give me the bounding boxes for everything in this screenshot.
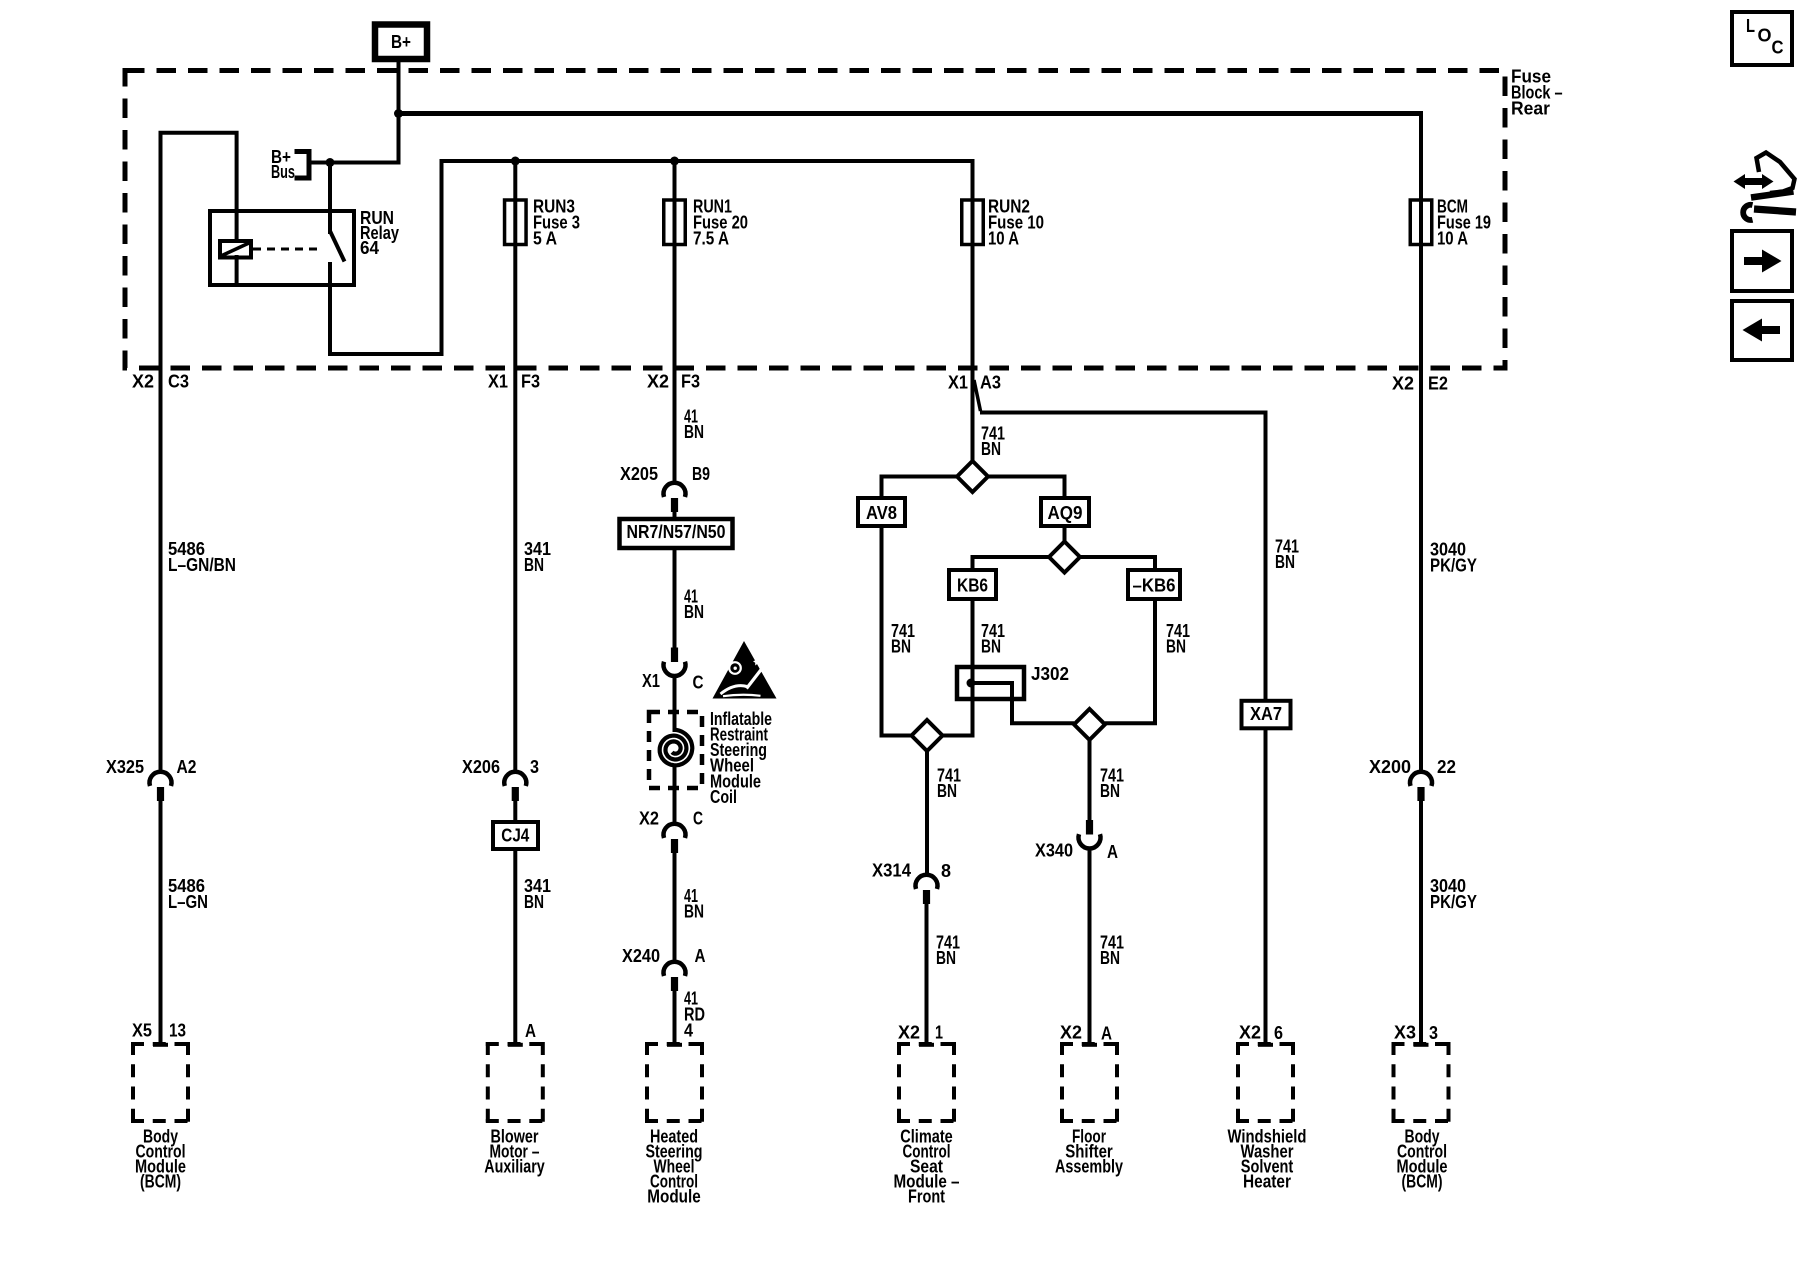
svg-text:CJ4: CJ4 [501, 825, 529, 845]
label 741 BN col4 [981, 423, 1005, 459]
svg-text:8: 8 [941, 861, 951, 881]
wire -KB6 down [1105, 599, 1155, 723]
svg-text:X2: X2 [647, 371, 669, 391]
svg-text:4: 4 [684, 1020, 693, 1040]
module blower label [484, 1126, 545, 1176]
svg-text:AQ9: AQ9 [1048, 503, 1083, 523]
code box AQ9 [1041, 498, 1089, 526]
relay RUN 64 box [210, 211, 354, 285]
module BCM right box [1392, 1042, 1451, 1123]
connector X314 8 [872, 860, 951, 904]
connector X205 B9 [620, 464, 710, 512]
svg-text:Heater: Heater [1243, 1171, 1291, 1191]
pin X1 F3 [488, 371, 540, 391]
code box AV8 [858, 498, 905, 526]
svg-text:X340: X340 [1035, 840, 1073, 860]
svg-text:BN: BN [684, 422, 704, 442]
fuse RUN3 [505, 200, 527, 245]
label 41 BN col3 mid [684, 586, 704, 622]
wire coil bottom to box edge [235, 255, 239, 285]
svg-text:3: 3 [1429, 1023, 1438, 1043]
connector X340 A [1035, 820, 1118, 862]
wire col2 lower [513, 849, 517, 1044]
label 5486 L-GN/BN [168, 539, 236, 575]
label 41 RD 4 [684, 988, 705, 1040]
pin X2 1 [898, 1022, 943, 1042]
svg-text:BN: BN [524, 555, 544, 575]
svg-text:A: A [1101, 1023, 1112, 1043]
module BCM right label [1397, 1126, 1448, 1191]
svg-text:13: 13 [169, 1020, 186, 1040]
wire RUN2 below block [971, 368, 975, 462]
pin X2 C3 [132, 371, 189, 391]
wire KB6 down [943, 599, 973, 736]
wire AQ9 down [1063, 526, 1067, 543]
fuse BCM 19 [1410, 200, 1432, 245]
svg-text:C: C [1772, 37, 1784, 57]
wire diamond1 right arm [988, 477, 1065, 501]
relay coil [220, 241, 251, 258]
module climate seat label [894, 1126, 960, 1206]
svg-text:X2: X2 [898, 1022, 920, 1042]
wire diamond4 down [1088, 740, 1092, 820]
warning triangle inflatable restraint [713, 641, 777, 699]
fuse block label [1511, 66, 1563, 118]
label 741 BN -KB6 branch [1166, 621, 1190, 657]
relay switch blade [330, 231, 345, 262]
label 741 BN below X340 [1100, 932, 1124, 968]
option box NR7/N57/N50 [620, 519, 733, 548]
icon arrow left box [1732, 301, 1792, 360]
svg-text:(BCM): (BCM) [140, 1171, 181, 1191]
node J302 tap [967, 679, 976, 688]
svg-text:A2: A2 [177, 757, 197, 777]
label 3040 PK/GY lower [1430, 876, 1477, 912]
wire col3 into coil box [673, 675, 677, 732]
wire col3 below X2C [673, 853, 677, 962]
svg-text:C: C [693, 672, 704, 692]
svg-text:L–GN/BN: L–GN/BN [168, 555, 236, 575]
terminal col3 [667, 1043, 682, 1047]
module heated steering box [645, 1042, 704, 1123]
fuse RUN3 wire [513, 161, 517, 246]
relay label [360, 208, 399, 258]
svg-text:BN: BN [1100, 781, 1120, 801]
svg-text:A: A [1107, 842, 1118, 862]
svg-text:F3: F3 [521, 371, 540, 391]
wire col5 bottom [1088, 848, 1092, 1044]
svg-text:NR7/N57/N50: NR7/N57/N50 [627, 522, 726, 542]
svg-text:64: 64 [360, 238, 379, 258]
svg-text:B9: B9 [692, 464, 710, 484]
svg-text:X1: X1 [948, 372, 968, 392]
svg-text:XA7: XA7 [1250, 704, 1282, 724]
svg-text:X314: X314 [872, 860, 911, 880]
svg-text:C3: C3 [168, 371, 189, 391]
wire col2 mid [513, 801, 517, 824]
svg-text:BN: BN [1100, 948, 1120, 968]
svg-text:L: L [1746, 16, 1755, 36]
B+ Bus label [271, 147, 295, 182]
module BCM left label [135, 1126, 186, 1191]
label 41 BN col3 upper [684, 406, 704, 442]
svg-text:Module: Module [647, 1186, 701, 1206]
svg-text:F3: F3 [681, 371, 700, 391]
svg-text:Assembly: Assembly [1055, 1156, 1123, 1176]
connector X240 A [622, 946, 706, 991]
fuse RUN1 label [693, 196, 748, 248]
svg-text:BN: BN [981, 439, 1001, 459]
wire BCM down [1419, 244, 1423, 773]
wire RUN2 down [971, 244, 975, 462]
icon arrow right box [1732, 231, 1792, 291]
pin X5 13 [132, 1020, 186, 1040]
svg-text:BN: BN [937, 781, 957, 801]
fuse block - rear dashed boundary [125, 71, 1505, 369]
inflatable restraint coil spiral [660, 730, 693, 766]
dashed box steering wheel coil [649, 712, 702, 788]
svg-text:PK/GY: PK/GY [1430, 892, 1477, 912]
code box -KB6 [1128, 570, 1180, 599]
code box XA7 [1242, 701, 1291, 729]
svg-text:KB6: KB6 [957, 575, 988, 595]
svg-text:BN: BN [891, 636, 911, 656]
code box KB6 [949, 570, 996, 599]
wire diamond3 down [925, 751, 929, 876]
B+ power symbol [375, 25, 427, 60]
wire coil feed top [159, 133, 237, 243]
fuse RUN2 wire [971, 159, 975, 246]
svg-text:(BCM): (BCM) [1402, 1171, 1443, 1191]
label 341 BN lower [524, 876, 551, 912]
svg-text:10 A: 10 A [988, 228, 1019, 248]
wire RUN3 down [513, 244, 517, 773]
fuse RUN3 label [533, 196, 580, 248]
svg-text:BN: BN [684, 901, 704, 921]
svg-text:E2: E2 [1428, 373, 1448, 393]
svg-text:Auxiliary: Auxiliary [484, 1156, 545, 1176]
wire BCM fuse drop [1419, 111, 1423, 246]
svg-text:X1: X1 [642, 671, 660, 691]
label 41 BN col3 lower [684, 886, 704, 922]
fuse RUN2 label [988, 196, 1044, 248]
module BCM left box [131, 1042, 190, 1123]
pin X2 F3 [647, 371, 700, 391]
svg-text:BN: BN [981, 636, 1001, 656]
node bus junction [326, 158, 335, 167]
svg-text:10 A: 10 A [1437, 228, 1468, 248]
fuse RUN2 [962, 200, 984, 245]
node B+ junction [394, 109, 403, 118]
module floor shifter box [1060, 1042, 1119, 1123]
wire J302 tap right [971, 683, 1074, 723]
svg-text:5 A: 5 A [533, 228, 557, 248]
icon LOC box [1732, 12, 1792, 65]
fuse RUN1 wire [673, 161, 677, 246]
pin X3 3 [1394, 1022, 1438, 1043]
wire bus drop to relay switch [328, 163, 332, 235]
svg-text:X3: X3 [1394, 1022, 1416, 1042]
label 741 BN below diamond4 [1100, 765, 1124, 801]
splice diamond 4 [1074, 709, 1105, 740]
svg-text:Coil: Coil [710, 787, 737, 807]
svg-text:Front: Front [908, 1186, 945, 1206]
wire main feed line1 [396, 111, 1421, 116]
node RUN3 junction [511, 157, 520, 166]
svg-text:L–GN: L–GN [168, 892, 208, 912]
terminal col4 [919, 1043, 934, 1047]
fuse RUN1 [664, 200, 686, 245]
wire branch to XA7 column [980, 413, 1266, 703]
svg-text:AV8: AV8 [866, 503, 897, 523]
svg-text:X205: X205 [620, 464, 658, 484]
wire col7 lower [1419, 801, 1423, 1044]
svg-text:X1: X1 [488, 371, 508, 391]
terminal col6 [1258, 1043, 1273, 1047]
module floor shifter label [1055, 1126, 1123, 1176]
label 341 BN upper [524, 539, 551, 575]
svg-text:X2: X2 [639, 808, 659, 828]
svg-text:X2: X2 [132, 371, 154, 391]
wire diamond2 left arm [973, 557, 1050, 572]
wire col3 below NR7 [673, 548, 677, 649]
terminal col7 [1414, 1043, 1429, 1047]
svg-text:BN: BN [524, 892, 544, 912]
wire col3 below coil [673, 766, 677, 824]
junction block J302 [957, 664, 1069, 699]
svg-text:BN: BN [1275, 552, 1295, 572]
wire col1 down [159, 131, 163, 772]
svg-text:X325: X325 [106, 757, 144, 777]
svg-text:Bus: Bus [271, 162, 295, 182]
wire AV8 down [882, 526, 912, 736]
module blower box [486, 1042, 545, 1123]
module climate seat box [897, 1042, 956, 1123]
module windshield box [1236, 1042, 1295, 1123]
wire diamond1 left arm [882, 477, 958, 501]
wire col6 bottom [1264, 728, 1268, 1044]
wire col3 to NR7 [673, 512, 677, 521]
pin A blower [525, 1021, 536, 1041]
svg-text:BN: BN [936, 948, 956, 968]
label 741 BN AV8 branch [891, 621, 915, 657]
terminal col2 [508, 1043, 523, 1047]
svg-text:X2: X2 [1060, 1022, 1082, 1042]
wire col4 bottom [925, 904, 929, 1044]
svg-text:X5: X5 [132, 1020, 152, 1040]
svg-text:3: 3 [530, 757, 539, 777]
svg-text:X2: X2 [1239, 1022, 1261, 1042]
pin X2 6 [1239, 1022, 1283, 1043]
B+ Bus connector [295, 152, 310, 179]
svg-text:–KB6: –KB6 [1133, 575, 1176, 595]
relay switch lower stub [328, 262, 332, 354]
label 741 BN KB6 branch [981, 621, 1005, 657]
svg-text:BN: BN [1166, 636, 1186, 656]
svg-text:A: A [695, 946, 706, 966]
coil label [710, 709, 772, 807]
wire RUN1 down [673, 244, 677, 484]
label 741 BN below diamond3 [937, 765, 961, 801]
svg-text:X240: X240 [622, 946, 660, 966]
connector X2 C [639, 808, 703, 853]
svg-text:A3: A3 [980, 372, 1001, 392]
wire branch diagonal [974, 380, 981, 411]
label 741 BN below X314 [936, 932, 960, 968]
module heated steering label [646, 1126, 703, 1206]
module windshield label [1228, 1126, 1307, 1191]
wire B+ down [397, 58, 401, 165]
svg-text:X206: X206 [462, 757, 500, 777]
svg-text:Rear: Rear [1511, 98, 1550, 118]
wire relay return [328, 161, 973, 354]
node RUN1 junction [670, 157, 679, 166]
splice diamond 2 [1049, 542, 1080, 573]
terminal col1 [153, 1043, 168, 1047]
wire diamond2 right arm [1080, 557, 1155, 572]
pin X1 A3 [948, 372, 1001, 392]
svg-text:B+: B+ [391, 32, 411, 52]
svg-text:22: 22 [1437, 757, 1456, 777]
wire B+ Bus to B+ drop [309, 161, 399, 165]
label 3040 PK/GY upper [1430, 539, 1477, 575]
splice diamond 3 [912, 720, 943, 751]
icon wrench arrows [1734, 153, 1797, 221]
connector X200 22 [1369, 757, 1456, 801]
splice CJ4 box [493, 822, 538, 849]
wire col3 bottom [673, 991, 677, 1044]
svg-text:PK/GY: PK/GY [1430, 555, 1477, 575]
svg-text:C: C [693, 808, 703, 828]
label 741 BN XA7 branch [1275, 536, 1299, 572]
svg-text:A: A [525, 1021, 536, 1041]
connector X1 C [642, 648, 704, 693]
svg-text:X2: X2 [1392, 373, 1414, 393]
connector X206 3 [462, 757, 539, 801]
svg-text:O: O [1758, 25, 1772, 45]
svg-text:J302: J302 [1031, 664, 1069, 684]
wire col1 lower [159, 801, 163, 1044]
svg-text:7.5 A: 7.5 A [693, 228, 729, 248]
pin X2 A [1060, 1022, 1112, 1043]
svg-text:6: 6 [1274, 1023, 1283, 1043]
terminal col5 [1082, 1043, 1097, 1047]
svg-text:BN: BN [684, 602, 704, 622]
pin X2 E2 [1392, 373, 1448, 393]
svg-text:1: 1 [935, 1022, 943, 1042]
connector X325 A2 [106, 757, 197, 801]
relay coil link dashed [253, 248, 322, 251]
svg-text:X200: X200 [1369, 757, 1411, 777]
label 5486 L-GN [168, 876, 208, 912]
splice diamond 1 [957, 461, 988, 492]
fuse BCM label [1437, 196, 1491, 248]
